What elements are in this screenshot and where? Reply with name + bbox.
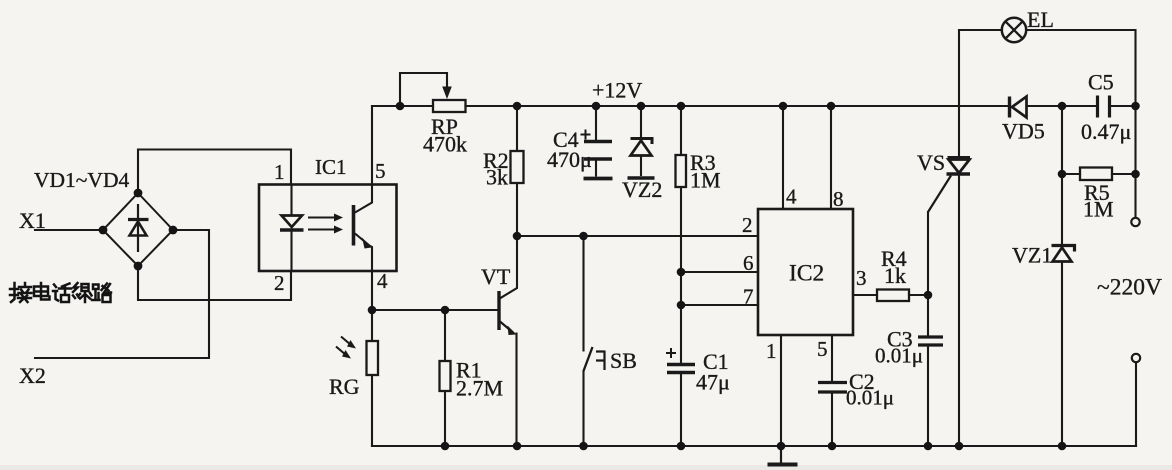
char 电 [34,283,50,300]
resistor R5 body [1080,168,1112,181]
node: R3 on rail [677,102,686,111]
svg-text:0.47μ: 0.47μ [1081,119,1131,144]
wire: R2 top lead [516,106,518,151]
wire: VD5 to C5 segment [1027,105,1098,107]
svg-text:6: 6 [743,251,754,275]
wire: X1 lead [35,229,103,231]
transistor VT [499,291,517,335]
node: C4 on rail [592,102,601,111]
scan shadow bottom [0,465,1172,470]
svg-text:1: 1 [274,160,285,184]
svg-text:RG: RG [329,374,360,399]
wire: VZ2 top lead [640,106,642,137]
IC1 internal phototransistor [354,185,373,272]
svg-text:7: 7 [743,285,754,309]
potentiometer RP body [433,100,466,112]
svg-text:VD5: VD5 [1002,119,1045,144]
wire: R2 bottom lead [516,183,518,236]
wire: IC2 pin6 line [681,271,758,273]
lamp EL [1002,18,1026,42]
capacitor C3 [918,337,943,345]
capacitor C4 electrolytic [581,130,613,179]
wire: top +12V rail main segment [466,105,1009,107]
node: C3 bottom on rail [924,442,933,451]
wire: lower mains terminal to bottom rail [1135,363,1137,447]
wire: IC1 pin5 riser [371,106,373,185]
mains terminal lower [1132,354,1140,362]
wire: C4 top lead [595,106,597,140]
wire: EL right lead down right side [1026,30,1136,218]
capacitor C1 electrolytic [666,348,695,373]
node: C5 right on rail [1131,102,1140,111]
svg-text:8: 8 [833,187,844,211]
wire: IC1 pin4 riser to base line [371,271,373,310]
switch SB [584,347,605,371]
svg-text:VZ1: VZ1 [1012,243,1052,268]
node: VZ2 on rail [637,102,646,111]
wire: IC2 pin7 line [681,304,758,306]
photoresistor RG body [367,341,379,375]
node: bridge left vertex [99,226,108,235]
wire: SB lower lead [582,371,584,446]
node: VS cathode on rail [955,442,964,451]
svg-text:3k: 3k [486,165,508,190]
node: bridge right vertex [169,226,178,235]
wire: IC2 pin4 riser [782,106,784,209]
ground symbol at IC2 pin1 [768,446,798,465]
svg-text:EL: EL [1027,7,1054,32]
node: bridge top vertex [134,189,143,198]
wire: bridge bottom to IC1 pin2 [138,266,291,300]
resistor R1 body [440,361,451,391]
node: IC2 pin1 on rail [777,442,786,451]
wire: RG top lead [371,310,373,341]
wire: C3 bottom lead [927,346,929,446]
svg-text:3: 3 [856,266,867,290]
wire: R3 to pins 6,7 and C1 [680,187,682,363]
svg-text:IC1: IC1 [315,155,347,179]
char 话 [53,284,71,303]
bridge rectifier VD1~VD4 diamond [103,193,173,266]
diode VD5 [1010,97,1027,118]
node: R2 bottom / VT collector [513,232,522,241]
wire: R4 to gate vertical [909,294,928,296]
node: C1 bottom on rail [677,442,686,451]
svg-text:IC2: IC2 [789,261,824,287]
wire: C2 bottom lead [831,394,833,447]
node: C2 bottom on rail [828,442,837,451]
IC1 internal LED [280,185,304,272]
wire: VD5 junction down to VZ1 [1061,106,1063,244]
svg-text:C5: C5 [1088,70,1114,95]
thyristor VS [928,158,970,213]
wire: VT emitter vertical [515,334,517,447]
node: R3 at pin7 [677,301,686,310]
wire: R5 left lead [1062,173,1080,175]
wire: VZ1 to bottom rail [1061,262,1063,446]
wire: R1 leads [444,310,446,446]
IC2 box [758,209,853,335]
wire: C5 to right vertical [1110,105,1136,107]
svg-text:2.7M: 2.7M [456,376,503,401]
wire: VT collector [501,236,518,298]
node: IC2 pin8 on rail [827,102,836,111]
char 线 [73,283,92,302]
wire: VS cathode to bottom rail [958,175,960,446]
resistor R4 body [877,290,909,302]
svg-text:VZ2: VZ2 [622,177,662,202]
node: R5 left junction [1058,170,1067,179]
node: SB bottom on rail [579,442,588,451]
svg-text:VS: VS [917,150,945,175]
wire: bottom common rail [372,445,1136,447]
node: RP wiper on rail [396,102,405,111]
node: R5 right junction [1131,170,1140,179]
mains terminal upper [1131,218,1139,226]
wire: VT base line [372,309,498,311]
svg-text:SB: SB [610,348,637,373]
IC1 light arrows [308,214,343,234]
svg-text:X1: X1 [19,208,46,233]
capacitor C2 [818,383,847,393]
wire: SB upper lead [582,236,584,351]
svg-text:2: 2 [742,213,753,237]
svg-text:470k: 470k [423,132,467,157]
wire: C1 bottom lead [680,374,682,446]
wire: VS gate vertical [927,212,929,336]
svg-text:4: 4 [786,185,797,209]
resistor R2 body [511,151,524,183]
svg-text:1M: 1M [690,168,721,193]
svg-text:4: 4 [377,269,388,293]
wire: R5 right lead [1112,173,1136,175]
node: bridge bottom vertex [134,262,143,271]
wire: RG bottom lead [371,375,373,446]
wire: IC2 pin1 lead [780,335,782,446]
zener diode VZ1 [1052,246,1075,262]
node: R4 to gate [924,291,933,300]
zener diode VZ2 [628,139,655,179]
node: SB top on pin2 line [579,232,588,241]
svg-text:470μ: 470μ [547,147,592,172]
resistor R3 body [676,155,687,187]
svg-text:1k: 1k [884,263,906,288]
node: R3 at pin6 [677,268,686,277]
node: RG top on base line [368,306,377,315]
node: VZ1 bottom on rail [1058,442,1067,451]
char 接 [10,283,32,302]
svg-text:X2: X2 [19,363,46,388]
svg-text:1M: 1M [1083,197,1114,222]
bridge diode symbol [128,204,149,252]
svg-text:0.01μ: 0.01μ [846,386,894,410]
node: R1 top on base line [441,306,450,315]
char 路 [92,284,111,303]
svg-text:~220V: ~220V [1097,275,1162,301]
svg-text:VD1~VD4: VD1~VD4 [34,168,129,192]
node: VD5 output junction [1058,102,1067,111]
svg-text:VT: VT [481,264,511,289]
RG light arrows [336,337,356,359]
node: IC2 pin4 on rail [779,102,788,111]
node: VT emitter on rail [513,442,522,451]
wire: IC2 pin5 lead to C2 [831,335,833,381]
svg-text:2: 2 [274,271,285,295]
svg-text:0.01μ: 0.01μ [875,344,923,368]
wire: IC2 pin8 riser [830,106,832,209]
wire: RP wiper loop [400,73,447,106]
wire: bridge top to IC1 pin1 [138,150,291,194]
op-to IC1 optocoupler box [259,185,397,272]
RP wiper arrow [442,86,452,99]
wire: IC2 pin2 line [517,235,758,237]
svg-text:1: 1 [766,339,777,363]
svg-text:+12V: +12V [592,78,642,103]
wire: IC2 pin3 to R4 [853,294,877,296]
wire: X2 lead [35,230,209,358]
svg-text:5: 5 [817,337,828,361]
capacitor C5 [1098,96,1110,118]
node: R2 top on rail [513,102,522,111]
svg-text:47μ: 47μ [696,370,730,395]
label 接电话线路 (telephone line) drawn glyphs [10,283,111,302]
wire: R3 top lead [680,106,682,155]
node: R1 bottom on rail [441,442,450,451]
wire: EL left lead and VS anode [959,30,1002,157]
wire: top +12V rail left segment [372,105,433,107]
svg-text:5: 5 [375,159,386,183]
